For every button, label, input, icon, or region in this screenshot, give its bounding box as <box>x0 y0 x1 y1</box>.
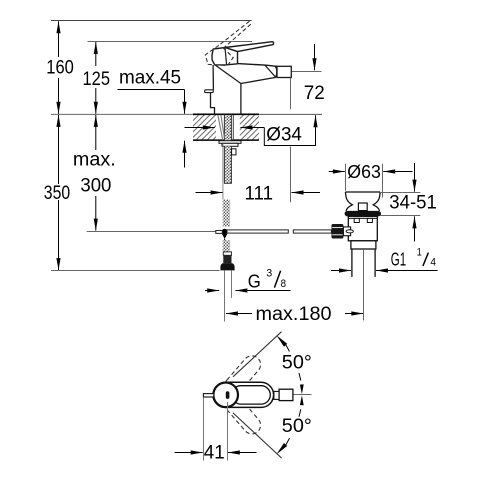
svg-text:50°: 50° <box>282 416 312 437</box>
pop-up rod knob <box>205 90 214 93</box>
50deg upper arc arrow at axis <box>276 335 287 346</box>
body tabs <box>354 218 359 222</box>
svg-text:350: 350 <box>44 183 70 204</box>
dimension G3/8 <box>205 290 219 292</box>
svg-text:111: 111 <box>245 183 274 204</box>
svg-text:34-51: 34-51 <box>389 193 437 214</box>
Ø34 label box leader <box>264 115 315 145</box>
junction dot <box>222 229 228 235</box>
dimension 125 <box>95 42 97 114</box>
50deg upper arrow at centerline <box>300 384 304 394</box>
svg-text:50°: 50° <box>282 353 312 374</box>
pivot pin <box>226 391 230 399</box>
svg-text:max.180: max.180 <box>256 304 332 325</box>
svg-text:1: 1 <box>417 247 422 259</box>
svg-text:Ø34: Ø34 <box>266 124 302 146</box>
deck top extension to 72 arrow <box>259 113 322 115</box>
threaded stud <box>224 146 231 183</box>
hose nut collar <box>223 252 231 255</box>
body right edge <box>240 84 242 115</box>
rod screw <box>346 230 353 233</box>
Ø63 extension lines <box>345 164 347 191</box>
deck hatch left <box>193 115 216 139</box>
flex hose braid upper <box>223 200 230 227</box>
faucet handle lever <box>225 42 274 52</box>
cartridge circle <box>213 383 238 408</box>
waste cup top <box>345 191 380 193</box>
dashed handle raised position <box>205 21 251 65</box>
outer capsule body <box>213 382 274 407</box>
waste cup right profile <box>373 192 380 211</box>
aerator connector (top view) <box>274 391 279 399</box>
extension line hose end (350 bottom) <box>51 270 220 272</box>
max.45 arrow to deck top <box>184 90 186 114</box>
deck bottom edge <box>193 139 259 141</box>
dimension 160 <box>58 21 60 114</box>
clamp screw <box>232 149 236 155</box>
50deg upper axis line <box>233 332 282 377</box>
tailpipe centerline <box>363 250 365 320</box>
hose nut body <box>223 255 231 263</box>
inner spout capsule <box>232 386 271 404</box>
faucet handle knob <box>212 48 238 65</box>
waste lower section <box>351 241 376 249</box>
dimension max.180 <box>226 313 252 315</box>
rod clevis left of joint <box>216 231 223 234</box>
aerator <box>277 66 291 77</box>
centerline right <box>294 394 312 396</box>
svg-text:41: 41 <box>204 443 225 464</box>
spout underside <box>215 65 276 84</box>
deck hatch right <box>240 115 259 139</box>
aerator (top view) <box>279 389 293 400</box>
junction clip <box>222 234 228 239</box>
dimension max.300 <box>95 115 97 231</box>
knob facet line <box>225 48 227 65</box>
max.45 arrow to deck bottom <box>184 141 186 168</box>
washer band <box>222 143 238 146</box>
hose curve below deck top <box>218 115 225 140</box>
rod connector <box>343 227 350 236</box>
svg-text:8: 8 <box>281 278 286 290</box>
mounting washer <box>219 141 241 144</box>
hose line <box>222 143 224 199</box>
svg-text:300: 300 <box>80 176 111 197</box>
svg-text:4: 4 <box>430 257 436 269</box>
lift rod housing <box>358 203 367 211</box>
hose hex nut <box>220 263 234 270</box>
dashed handle rotated up 50 <box>221 352 264 398</box>
G3/8 pipe <box>224 270 226 321</box>
extension line top (handle max height) <box>51 20 252 22</box>
dimension Ø63 arrows <box>329 171 345 173</box>
svg-text:max.45: max.45 <box>119 68 181 89</box>
svg-text:125: 125 <box>83 69 111 90</box>
dashed handle rotated down 50 <box>221 392 264 438</box>
50deg lower axis line <box>233 413 282 458</box>
svg-text:3: 3 <box>266 268 272 280</box>
pop-up rod horizontal (outlined bar) <box>227 230 288 233</box>
extension line deck level left <box>51 113 193 115</box>
waste body <box>348 216 377 240</box>
svg-text:72: 72 <box>304 83 325 104</box>
body left edge <box>211 65 215 114</box>
svg-text:G: G <box>248 271 261 292</box>
svg-text:Ø63: Ø63 <box>347 161 381 182</box>
dimension 72 <box>292 71 322 73</box>
waste cup left profile <box>345 192 352 211</box>
dimension 350 <box>58 115 60 270</box>
waste flange (black) <box>345 211 381 217</box>
flex hose braid lower <box>223 240 230 252</box>
extension line junction (max300 bottom) <box>87 231 220 233</box>
extension line 125 level <box>88 41 253 43</box>
dimension Ø34 arrows <box>185 127 215 129</box>
svg-text:160: 160 <box>46 58 74 79</box>
dimension 111 <box>196 192 223 194</box>
dimension 34-51 <box>380 192 420 194</box>
aerator extension line <box>290 78 292 110</box>
shank threaded stud upper (in deck hole) <box>224 115 231 141</box>
svg-text:max.: max. <box>73 150 116 171</box>
spout chamfer <box>265 65 276 77</box>
rod knurled knob <box>332 224 344 239</box>
spout end cap arc <box>275 67 277 78</box>
50deg lower arc arrow at axis <box>276 443 287 454</box>
spout shoulder top edge <box>238 64 277 67</box>
50deg lower arrow at centerline <box>300 395 304 405</box>
svg-text:G1: G1 <box>391 249 406 270</box>
tailpipe <box>351 249 353 277</box>
dimension G1 1/4 <box>331 270 351 272</box>
deck top edge <box>193 113 259 115</box>
dimension 41 <box>203 397 205 460</box>
pop-up rod (top view) <box>203 394 213 397</box>
